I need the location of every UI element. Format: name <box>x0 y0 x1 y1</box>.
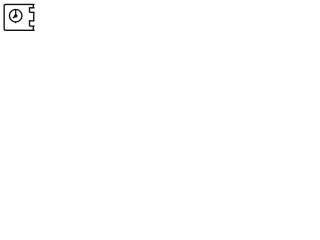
dial south tick (below circle) <box>15 22 17 23</box>
dial circle <box>10 10 22 22</box>
top hinge lower bar + right wall upper segment <box>30 8 35 13</box>
dial spoke north <box>15 10 17 16</box>
dial hub dot <box>14 14 17 17</box>
safe / vault icon <box>0 0 38 34</box>
safe body: top border, left side, bottom border <box>4 4 34 30</box>
top hinge knuckle <box>32 4 34 7</box>
handle grip <box>33 12 35 20</box>
bottom hinge knuckle <box>32 26 34 30</box>
handle top arm <box>30 11 35 13</box>
bottom hinge upper bar <box>30 25 35 27</box>
handle bottom arm + right wall lower segment <box>30 21 35 26</box>
dial pointer south-west <box>13 16 16 18</box>
